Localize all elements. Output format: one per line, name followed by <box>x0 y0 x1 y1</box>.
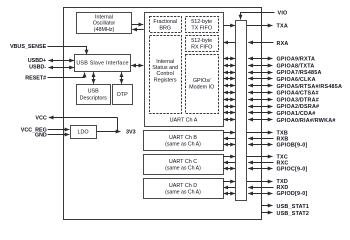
svg-text:Control: Control <box>157 71 174 77</box>
wire GPIOA2/DSRA# buffer-pin <box>248 106 272 108</box>
wire RXD buffer to uart <box>223 187 235 189</box>
svg-text:BRG: BRG <box>159 26 171 32</box>
wire GPIOA0/RIA#/RWKA# buffer-pin <box>248 119 272 121</box>
wire slave interface to OTP <box>121 72 123 84</box>
LDO block <box>71 126 97 139</box>
wire LDO output <box>96 131 120 133</box>
UART Ch C block <box>144 155 224 175</box>
wire GPIOA9/RXTA buffer-pin <box>248 58 272 60</box>
svg-text:UART Ch D: UART Ch D <box>169 183 197 189</box>
UART Ch D block <box>144 179 224 199</box>
svg-text:GPIOA4/CTSA#: GPIOA4/CTSA# <box>277 91 319 97</box>
512-byte TX FIFO block <box>186 17 219 33</box>
svg-text:GPIOA5/RTSA#/RS485A: GPIOA5/RTSA#/RS485A <box>277 84 343 90</box>
wire GPIOA4/CTSA# uart-buffer <box>223 92 235 94</box>
USB descriptors block <box>77 85 111 105</box>
svg-text:OTP: OTP <box>117 92 128 98</box>
svg-text:Fractional: Fractional <box>153 19 177 25</box>
svg-text:RX FIFO: RX FIFO <box>191 45 212 51</box>
IO buffer column block <box>236 21 247 201</box>
wire oscillator to UART Ch A <box>132 24 143 26</box>
svg-text:(48MHz): (48MHz) <box>94 27 115 33</box>
wire RXC buffer to uart <box>223 162 235 164</box>
svg-text:Status and: Status and <box>152 65 178 71</box>
wire RXB buffer to uart <box>223 138 235 140</box>
wire GPIOA7/RS485A uart-buffer <box>223 72 235 74</box>
wire GPIOA1/CDA# buffer-pin <box>248 112 272 114</box>
wire TXA buffer to pin <box>247 25 273 27</box>
svg-text:GPIOD[9-0]: GPIOD[9-0] <box>277 191 308 197</box>
wire RXB pin to buffer <box>248 138 273 140</box>
svg-text:USB_STAT1: USB_STAT1 <box>277 204 310 210</box>
wire RXC pin to buffer <box>248 162 273 164</box>
wire GPIOA3/DTRA# buffer-pin <box>248 99 272 101</box>
wire GPIOA5/RTSA#/RS485A buffer-pin <box>248 85 272 87</box>
wire RXD pin to buffer <box>248 187 273 189</box>
wire VBUS_SENSE <box>48 47 87 55</box>
svg-text:VCC: VCC <box>35 116 46 122</box>
wire GPIOA3/DTRA# uart-buffer <box>223 99 235 101</box>
OTP block <box>113 85 133 105</box>
wire GPIOD[9-0] buffer-pin <box>248 193 272 195</box>
GPIOs / modem IO block <box>186 55 219 114</box>
wire GPIOB[9-0] uart-buffer <box>223 144 235 146</box>
wire RXA buffer to uart <box>223 42 235 44</box>
svg-text:512-byte: 512-byte <box>191 38 212 44</box>
wire GPIOA1/CDA# uart-buffer <box>223 112 235 114</box>
svg-text:Registers: Registers <box>154 77 177 83</box>
svg-text:GPIOA8/TXTA: GPIOA8/TXTA <box>277 63 315 69</box>
svg-text:USB Slave Interface: USB Slave Interface <box>76 61 128 67</box>
svg-text:VIO: VIO <box>278 10 288 16</box>
wire USB_STAT1 <box>261 205 273 207</box>
wire TXC buffer to pin <box>247 156 273 158</box>
svg-text:(same as Ch A): (same as Ch A) <box>165 141 201 147</box>
wire GPIOA7/RS485A buffer-pin <box>248 72 272 74</box>
wire GPIOA5/RTSA#/RS485A uart-buffer <box>223 85 235 87</box>
svg-text:USBD+: USBD+ <box>28 58 46 64</box>
svg-text:(same as Ch A): (same as Ch A) <box>165 165 201 171</box>
svg-text:TXA: TXA <box>277 24 288 30</box>
svg-text:GPIOB[9-0]: GPIOB[9-0] <box>277 143 308 149</box>
svg-text:GPIOA6/CLKA: GPIOA6/CLKA <box>277 77 316 83</box>
wire RESET# <box>48 73 85 78</box>
wire TXB uart to buffer <box>223 132 235 134</box>
svg-text:Modem IO: Modem IO <box>189 84 214 90</box>
svg-text:(same as Ch A): (same as Ch A) <box>165 189 201 195</box>
wire GPIOD[9-0] uart-buffer <box>223 193 235 195</box>
svg-text:USB_STAT2: USB_STAT2 <box>277 211 310 217</box>
UART Ch B block <box>144 131 224 151</box>
svg-text:512-byte: 512-byte <box>191 19 212 25</box>
wire GPIOA9/RXTA uart-buffer <box>223 58 235 60</box>
svg-text:LDO: LDO <box>77 130 88 136</box>
svg-text:USB: USB <box>88 88 99 94</box>
svg-text:GND: GND <box>35 133 47 139</box>
wire VCC <box>49 117 117 119</box>
wire GPIOA6/CLKA uart-buffer <box>223 78 235 80</box>
wire GPIOA2/DSRA# uart-buffer <box>223 106 235 108</box>
svg-text:GPIOs/: GPIOs/ <box>193 78 211 84</box>
wire GPIOA0/RIA#/RWKA# uart-buffer <box>223 119 235 121</box>
svg-text:USBD-: USBD- <box>29 65 46 71</box>
wire RXA pin to buffer <box>248 42 273 44</box>
wire GPIOA8/TXTA buffer-pin <box>248 65 272 67</box>
svg-text:Oscillator: Oscillator <box>93 21 116 27</box>
wire slave interface to control registers <box>131 65 143 67</box>
svg-text:RESET#: RESET# <box>25 75 46 81</box>
wire USB_STAT2 <box>261 212 273 214</box>
wire USBD- <box>48 67 74 69</box>
svg-text:GPIOA0/RIA#/RWKA#: GPIOA0/RIA#/RWKA# <box>277 118 336 124</box>
USB slave interface block <box>75 55 131 72</box>
svg-text:GPIOA1/CDA#: GPIOA1/CDA# <box>277 111 316 117</box>
wire VCC to 3V3 node <box>117 117 119 131</box>
svg-text:Internal: Internal <box>156 59 174 65</box>
wire TXB buffer to pin <box>247 132 273 134</box>
internal status and control registers block <box>150 36 182 114</box>
wire VCC_REG <box>48 129 70 131</box>
wire TXA uart to buffer <box>223 25 235 27</box>
UART Ch A block <box>145 13 224 127</box>
wire TXC uart to buffer <box>223 156 235 158</box>
wire UART Ch A to oscillator <box>132 29 143 31</box>
svg-text:GPIOA9/RXTA: GPIOA9/RXTA <box>277 57 316 63</box>
outer chip boundary box <box>64 8 262 220</box>
wire TXD uart to buffer <box>223 181 235 183</box>
fractional BRG block <box>150 17 182 33</box>
svg-text:Internal: Internal <box>95 14 113 20</box>
wire GPIOA4/CTSA# buffer-pin <box>248 92 272 94</box>
wire VIO <box>241 13 275 20</box>
svg-text:GPIOA3/DTRA#: GPIOA3/DTRA# <box>277 97 319 103</box>
internal oscillator block <box>77 13 132 34</box>
svg-text:GPIOA7/RS485A: GPIOA7/RS485A <box>277 70 322 76</box>
wire GPIOC[9-0] uart-buffer <box>223 168 235 170</box>
svg-text:UART Ch B: UART Ch B <box>169 135 197 141</box>
svg-text:RXA: RXA <box>277 41 289 47</box>
svg-text:UART Ch A: UART Ch A <box>170 117 198 123</box>
svg-text:TX FIFO: TX FIFO <box>191 26 212 32</box>
wire GPIOA8/TXTA uart-buffer <box>223 65 235 67</box>
wire slave interface to USB descriptors <box>93 72 95 84</box>
wire GND <box>48 134 70 136</box>
wire GPIOC[9-0] buffer-pin <box>248 168 272 170</box>
svg-text:3V3: 3V3 <box>126 129 136 135</box>
svg-text:VBUS_SENSE: VBUS_SENSE <box>10 44 47 50</box>
wire GPIOA6/CLKA buffer-pin <box>248 78 272 80</box>
svg-text:Descriptors: Descriptors <box>80 95 108 101</box>
wire USBD+ <box>48 60 74 62</box>
wire TXD buffer to pin <box>247 181 273 183</box>
512-byte RX FIFO block <box>186 36 219 52</box>
svg-text:GPIOC[9-0]: GPIOC[9-0] <box>277 167 308 173</box>
wire GPIOB[9-0] buffer-pin <box>248 144 272 146</box>
svg-text:GPIOA2/DSRA#: GPIOA2/DSRA# <box>277 104 320 110</box>
svg-text:UART Ch C: UART Ch C <box>169 159 197 165</box>
